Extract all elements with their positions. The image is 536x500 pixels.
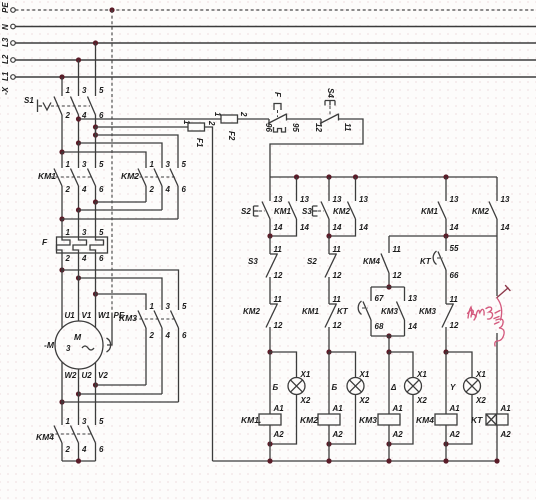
svg-text:S3: S3: [302, 207, 312, 216]
contactor KM3 mechanical link: [134, 318, 176, 320]
switch S1 mechanical link: [51, 105, 90, 107]
contactor KM1 pole 3-4: [71, 160, 88, 210]
coil KM4: [416, 404, 460, 439]
svg-text:1: 1: [150, 302, 155, 311]
svg-text:1: 1: [66, 86, 71, 95]
svg-text:A2: A2: [449, 430, 461, 439]
svg-text:5: 5: [99, 160, 104, 169]
node branch4 lamp join: [443, 441, 448, 446]
switch S1 handle: [38, 100, 52, 113]
svg-text:14: 14: [274, 223, 283, 232]
svg-text:67: 67: [375, 294, 384, 303]
svg-text:KM3: KM3: [119, 313, 137, 323]
wire coil KM1 to bus: [269, 425, 271, 461]
wire coil KM2 to bus: [328, 425, 330, 461]
wire delta feed B to KM3 pole2: [79, 278, 163, 310]
thermal relay F pole 3-4: [73, 228, 87, 263]
svg-text:KM1: KM1: [38, 171, 56, 181]
motor M text: [66, 332, 94, 353]
svg-text:2: 2: [149, 331, 155, 340]
PE wire to motor frame: [107, 313, 113, 352]
svg-text:6: 6: [99, 254, 104, 263]
contact KM3 aux 13-14: [381, 287, 417, 336]
node crossover A: [59, 216, 64, 221]
contact KM1 aux 13-14: [270, 177, 309, 236]
svg-text:14: 14: [450, 223, 459, 232]
switch S1 pole 1-2: [54, 86, 71, 152]
node PE tap: [109, 7, 114, 12]
thermal relay F NC contact 95-96: [264, 114, 300, 133]
contactor KM3 pole 5-6: [171, 302, 188, 402]
wire KM3 out3 to W2: [62, 401, 179, 403]
contact S2 NC 11-12: [307, 236, 342, 304]
svg-text:V1: V1: [82, 311, 92, 320]
node branch3 lamp join: [386, 441, 391, 446]
svg-text:1: 1: [213, 112, 222, 117]
wire phase B to KM2 pole2: [79, 143, 163, 168]
node bus branch4: [443, 174, 448, 179]
wire KM3 out1 to V2: [96, 384, 147, 386]
svg-text:66: 66: [450, 271, 459, 280]
contact KM2 NC 11-12: [243, 295, 283, 352]
svg-text:Б: Б: [273, 383, 279, 392]
wire L3 tap to fuse F1: [96, 126, 189, 128]
power rail L3: [1, 37, 536, 47]
wire delta feed A to KM3 pole3: [62, 270, 179, 310]
coil KT timer: [471, 404, 511, 439]
power rail N: [1, 24, 536, 30]
node bus branch5: [494, 458, 499, 463]
svg-text:X1: X1: [416, 370, 427, 379]
node crossover C: [93, 199, 98, 204]
node branch3 lamp tap: [386, 349, 391, 354]
wire F95 to S4: [287, 118, 322, 120]
svg-text:KM1.: KM1.: [241, 415, 261, 425]
svg-text:5: 5: [99, 228, 104, 237]
node bus KM1 aux: [294, 174, 299, 179]
svg-text:KM1: KM1: [274, 207, 291, 216]
svg-text:14: 14: [359, 223, 368, 232]
lamp X1 star: [446, 352, 486, 444]
wire branch5 to coil KT: [496, 236, 498, 296]
svg-text:A2: A2: [392, 430, 404, 439]
svg-text:X2: X2: [359, 396, 370, 405]
node branch1 seal-in join: [267, 233, 272, 238]
wire parallel top link: [371, 286, 405, 288]
svg-text:2: 2: [207, 120, 216, 126]
svg-text:KM2: KM2: [121, 171, 139, 181]
node motor V2: [93, 382, 98, 387]
wire L2 tap to fuse F2: [79, 118, 222, 120]
svg-text:S1: S1: [24, 96, 34, 105]
svg-text:55: 55: [450, 244, 459, 253]
wire F out B to motor V1: [78, 253, 80, 321]
contact KM2 aux 13-14: [329, 177, 368, 236]
svg-text:3: 3: [82, 417, 87, 426]
svg-text:6: 6: [99, 445, 104, 454]
svg-text:11: 11: [333, 245, 342, 254]
node star point: [76, 458, 81, 463]
switch S1 pole 5-6: [88, 86, 105, 135]
power rail L1: [1, 71, 536, 81]
svg-text:14: 14: [300, 223, 309, 232]
node delta feed B: [76, 275, 81, 280]
svg-text:A1: A1: [273, 404, 285, 413]
svg-text:6: 6: [182, 185, 187, 194]
coil KM2: [300, 404, 343, 439]
svg-text:X1: X1: [300, 370, 311, 379]
svg-text:13: 13: [408, 294, 417, 303]
svg-text:L2: L2: [1, 54, 10, 64]
wire F out C to motor W1: [95, 253, 97, 328]
contactor KM4 pole 1-2: [54, 417, 71, 461]
timer contact KT 67-68: [337, 287, 384, 336]
wire branch4 to coil: [445, 352, 447, 414]
power rail L2: [1, 54, 536, 64]
svg-text:13: 13: [501, 195, 510, 204]
lamp X1 delta: [389, 352, 427, 444]
svg-text:12: 12: [393, 271, 402, 280]
node branch4 lamp tap: [443, 349, 448, 354]
node control feed L2: [76, 116, 81, 121]
wire KM2 out1 crossover: [96, 201, 147, 203]
contact S3 NC 11-12: [248, 236, 283, 304]
svg-text:2: 2: [65, 254, 71, 263]
svg-text:95: 95: [291, 123, 300, 132]
svg-text:KT: KT: [420, 257, 432, 266]
svg-text:2: 2: [65, 445, 71, 454]
svg-text:11: 11: [333, 295, 342, 304]
svg-text:KT: KT: [337, 307, 349, 316]
contactor KM2 mechanical link: [134, 176, 176, 178]
svg-text:KM4: KM4: [363, 257, 380, 266]
contact KM4 aux 11-12: [363, 236, 402, 287]
svg-text:1: 1: [66, 417, 71, 426]
svg-text:A1: A1: [449, 404, 461, 413]
svg-text:F: F: [42, 237, 48, 247]
wire F out A to motor U1: [61, 253, 63, 328]
thermal relay F box: [57, 237, 108, 253]
wire KM2 out3 crossover: [62, 218, 178, 220]
fuse F2: [213, 111, 248, 141]
node KM2 feed phase B: [76, 140, 81, 145]
contact KM1 NC 11-12: [302, 295, 342, 352]
contact KM2 aux branch5 13-14: [472, 177, 510, 236]
switch S1 pole 3-4: [71, 86, 88, 143]
wire KM1 out B to F: [78, 210, 80, 237]
svg-text:S4: S4: [326, 88, 335, 98]
wire KM3 out2 to U2: [79, 393, 163, 395]
thermal relay F actuator and label: [273, 92, 286, 132]
contactor KM1 mechanical link: [50, 176, 92, 178]
fuse F1: [182, 120, 216, 148]
contactor KM3 pole 1-2: [138, 302, 155, 385]
wire phase B to KM1 pole2: [78, 143, 80, 168]
svg-text:12: 12: [274, 321, 283, 330]
contactor KM4 mechanical link: [50, 433, 92, 435]
svg-text:F1: F1: [195, 138, 204, 148]
timer contact KT 55-66: [420, 236, 459, 280]
contactor KM1 pole 1-2: [54, 160, 71, 219]
thermal relay F pole 1-2: [57, 228, 71, 263]
svg-text:W2: W2: [65, 371, 78, 380]
node motor W2: [59, 399, 64, 404]
svg-text:2: 2: [65, 111, 71, 120]
node bus branch1: [267, 458, 272, 463]
emergency stop S4 NC contact 11-12: [314, 114, 352, 133]
svg-text:F: F: [273, 92, 282, 98]
wire phase A to KM2 pole1: [62, 152, 146, 168]
svg-text:3: 3: [82, 86, 87, 95]
svg-text:68: 68: [375, 322, 384, 331]
contactor KM4 pole 5-6: [88, 417, 105, 461]
wire branch3 to coil: [388, 352, 390, 414]
svg-text:N: N: [1, 24, 10, 30]
node delta feed A: [59, 267, 64, 272]
wire phase C to KM1 pole3: [95, 127, 97, 168]
wire coil KM4 to bus: [445, 425, 447, 461]
wire delta feed C to KM3 pole1: [96, 294, 147, 310]
svg-text:6: 6: [182, 331, 187, 340]
svg-text:11: 11: [393, 245, 402, 254]
node KM2 feed phase C: [93, 132, 98, 137]
svg-text:11: 11: [343, 123, 352, 132]
svg-text:4: 4: [81, 185, 87, 194]
wire KM1 out C to F: [95, 202, 97, 237]
contactor KM2 pole 1-2: [138, 160, 155, 202]
node branch3 parallel bottom: [386, 333, 391, 338]
svg-text:5: 5: [182, 160, 187, 169]
node branch4 join: [443, 233, 448, 238]
svg-text:5: 5: [99, 86, 104, 95]
svg-text:5: 5: [99, 417, 104, 426]
contact KM3 NC 11-12: [419, 270, 459, 352]
svg-text:13: 13: [450, 195, 459, 204]
wire motor U2 down: [78, 369, 80, 425]
svg-text:X2: X2: [416, 396, 427, 405]
svg-text:11: 11: [274, 295, 283, 304]
svg-text:Δ: Δ: [390, 383, 397, 392]
wire motor V2 down: [95, 363, 97, 426]
svg-text:5: 5: [182, 302, 187, 311]
svg-text:KM2: KM2: [333, 207, 350, 216]
wire KM1 out A to F: [61, 219, 63, 237]
svg-text:V2: V2: [98, 371, 108, 380]
svg-text:A1: A1: [332, 404, 344, 413]
annotation handwritten KM3: [468, 286, 511, 347]
svg-text:KM3: KM3: [359, 415, 377, 425]
thermal relay F pole 5-6: [90, 228, 104, 263]
svg-text:A2: A2: [332, 430, 344, 439]
node L3 tap: [93, 40, 98, 45]
svg-text:4: 4: [165, 331, 171, 340]
wire F2 to thermal contact: [238, 118, 270, 120]
svg-text:3: 3: [166, 302, 171, 311]
node bus branch3: [386, 458, 391, 463]
svg-text:X1: X1: [475, 370, 486, 379]
svg-text:2: 2: [149, 185, 155, 194]
wire KM2 out2 crossover: [79, 209, 163, 211]
svg-text:3: 3: [166, 160, 171, 169]
node branch2 lamp tap: [326, 349, 331, 354]
wire node236 branch3 link: [389, 235, 497, 237]
motor M circle: [55, 321, 103, 369]
wire branch1 to coil: [269, 352, 271, 414]
svg-text:U2: U2: [82, 371, 93, 380]
svg-text:F2: F2: [227, 131, 236, 141]
node bus branch2: [326, 458, 331, 463]
wire parallel bottom link: [371, 335, 405, 337]
svg-text:12: 12: [450, 321, 459, 330]
contactor KM3 pole 3-4: [154, 302, 171, 394]
button S4 actuator and label: [325, 88, 335, 116]
svg-text:12: 12: [274, 271, 283, 280]
contact KM1 aux branch4 13-14: [421, 177, 459, 236]
contactor KM2 pole 5-6: [170, 160, 187, 219]
svg-text:U1: U1: [65, 311, 76, 320]
wire control bus: [270, 176, 497, 178]
lamp X1 forward: [270, 352, 311, 444]
node branch2 lamp join: [326, 441, 331, 446]
wire branch2 to coil: [328, 352, 330, 414]
svg-text:M: M: [74, 332, 82, 342]
wire phase C to KM2 pole3: [96, 135, 179, 168]
wire L3 to S1 pole3: [95, 43, 97, 96]
svg-text:1: 1: [182, 120, 191, 125]
wire coil KT to bus: [496, 425, 498, 461]
button S3 actuator and label: [302, 206, 324, 216]
svg-text:3: 3: [82, 228, 87, 237]
wire motor W2 down: [61, 362, 63, 425]
svg-text:6: 6: [99, 185, 104, 194]
svg-text:L3: L3: [1, 37, 10, 47]
svg-text:A2: A2: [500, 430, 512, 439]
node bus KM2 aux: [353, 174, 358, 179]
wire F1 to bottom bus: [205, 127, 213, 461]
svg-text:KM4: KM4: [416, 415, 434, 425]
svg-text:4: 4: [81, 445, 87, 454]
motor terminal labels bottom: [65, 371, 109, 380]
svg-text:14: 14: [408, 322, 417, 331]
node KM2 feed phase A: [59, 149, 64, 154]
svg-text:X2: X2: [300, 396, 311, 405]
svg-text:KM2: KM2: [472, 207, 489, 216]
svg-text:L1: L1: [1, 71, 10, 81]
wire branch3 mid: [388, 336, 390, 352]
svg-text:-M: -M: [44, 340, 55, 350]
power rail PE (dashed): [1, 2, 536, 13]
wire S4 to control bus: [270, 119, 363, 177]
svg-text:1: 1: [150, 160, 155, 169]
node bus branch2: [326, 174, 331, 179]
svg-text:S3: S3: [248, 257, 258, 266]
svg-text:KT: KT: [471, 415, 483, 425]
svg-text:4: 4: [165, 185, 171, 194]
node control feed L3: [93, 124, 98, 129]
svg-text:W1: W1: [98, 311, 111, 320]
motor terminal labels top: [65, 311, 111, 320]
svg-text:11: 11: [450, 295, 459, 304]
svg-text:11: 11: [274, 245, 283, 254]
svg-text:-X: -X: [1, 86, 10, 95]
svg-text:12: 12: [333, 271, 342, 280]
contactor KM4 pole 3-4: [71, 417, 88, 461]
svg-text:2: 2: [239, 111, 248, 117]
svg-text:Б: Б: [332, 383, 338, 392]
button S3 contact 13-14: [321, 177, 342, 236]
coil KM1: [241, 404, 284, 439]
button S2 actuator and label: [241, 206, 265, 216]
svg-text:Y: Y: [450, 383, 456, 392]
contactor KM1 pole 5-6: [88, 160, 105, 202]
svg-text:X1: X1: [359, 370, 370, 379]
svg-text:KM1: KM1: [421, 207, 438, 216]
svg-text:3: 3: [66, 344, 71, 353]
node branch3 parallel top: [386, 284, 391, 289]
wire KM4 star link: [62, 460, 96, 462]
svg-text:PE: PE: [1, 2, 10, 13]
svg-text:13: 13: [333, 195, 342, 204]
node crossover B: [76, 207, 81, 212]
svg-text:13: 13: [359, 195, 368, 204]
svg-text:KM3: KM3: [381, 307, 398, 316]
svg-text:4: 4: [81, 254, 87, 263]
node L1 tap: [59, 74, 64, 79]
svg-text:A1: A1: [500, 404, 512, 413]
PE wire dashed drop: [111, 10, 113, 313]
wire coil KM3 to bus: [388, 425, 390, 461]
node branch1 lamp tap: [267, 349, 272, 354]
contactor KM2 pole 3-4: [154, 160, 171, 210]
node motor U2: [76, 391, 81, 396]
svg-text:KM2: KM2: [243, 307, 260, 316]
svg-text:A1: A1: [392, 404, 404, 413]
svg-text:3: 3: [82, 160, 87, 169]
svg-text:1: 1: [66, 228, 71, 237]
button S2 contact 13-14: [262, 177, 283, 236]
svg-text:S2: S2: [307, 257, 317, 266]
node bus branch4: [443, 458, 448, 463]
coil KM3: [359, 404, 403, 439]
svg-text:KM1: KM1: [302, 307, 319, 316]
wire phase A to KM1 pole1: [61, 152, 63, 168]
node branch2 seal-in join: [326, 233, 331, 238]
svg-text:13: 13: [300, 195, 309, 204]
svg-text:X2: X2: [475, 396, 486, 405]
svg-text:1: 1: [66, 160, 71, 169]
svg-text:2: 2: [65, 185, 71, 194]
wire bottom bus: [213, 460, 498, 462]
svg-text:14: 14: [333, 223, 342, 232]
wire L2 to S1 pole2: [78, 60, 80, 96]
node delta feed C: [93, 291, 98, 296]
svg-text:KM3: KM3: [419, 307, 436, 316]
svg-text:12: 12: [333, 321, 342, 330]
node branch1 lamp join: [267, 441, 272, 446]
svg-text:13: 13: [274, 195, 283, 204]
svg-text:KM2: KM2: [300, 415, 318, 425]
lamp X1 reverse: [329, 352, 370, 444]
wire L1 to S1 pole1: [61, 77, 63, 96]
svg-text:S2: S2: [241, 207, 251, 216]
svg-text:A2: A2: [273, 430, 285, 439]
svg-text:14: 14: [501, 223, 510, 232]
node L2 tap: [76, 57, 81, 62]
